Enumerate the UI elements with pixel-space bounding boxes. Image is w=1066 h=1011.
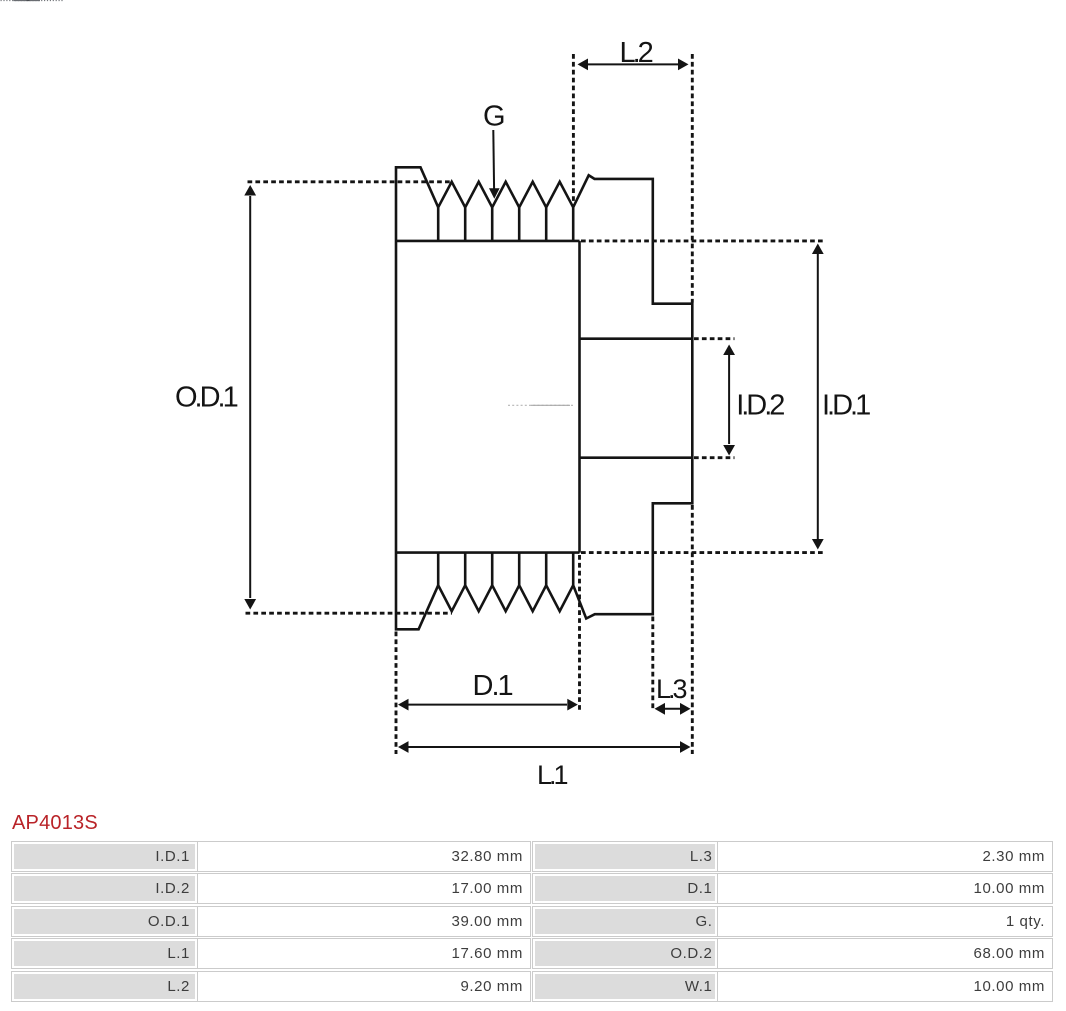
technical drawing of belt pulley	[0, 0, 1066, 800]
svg-text:I.D.2: I.D.2	[736, 389, 784, 421]
groove root slots bottom	[438, 553, 573, 586]
svg-text:L.3: L.3	[656, 674, 687, 704]
I.D.2 extension dashed bottom	[694, 456, 735, 459]
centerline axis	[508, 404, 573, 406]
O.D.1 extension dashed bottom	[246, 612, 453, 615]
svg-text:I.D.1: I.D.1	[822, 389, 870, 421]
dimension L.1 arrow line	[408, 746, 680, 748]
dimension L.2 arrow line	[587, 63, 679, 65]
dimension L.3 arrow line	[663, 708, 682, 710]
svg-text:L.1: L.1	[537, 760, 568, 790]
bore I.D.2 bottom line	[580, 456, 693, 459]
groove root slots top	[438, 207, 573, 241]
L.2 extension dashed right	[691, 54, 694, 303]
svg-text:L.2: L.2	[620, 37, 653, 69]
I.D.2 extension dashed top	[694, 337, 735, 340]
left spec table	[11, 841, 531, 1004]
svg-text:G: G	[483, 101, 506, 133]
D.1 extension dashed right	[578, 555, 581, 711]
pulley outline with poly-V grooves	[396, 167, 692, 629]
I.D.1 extension dashed bottom	[581, 551, 826, 554]
D.1 extension dashed left	[395, 632, 398, 755]
svg-text:O.D.1: O.D.1	[175, 382, 238, 414]
right spec table	[532, 841, 1054, 1004]
L.1 extension dashed right	[691, 505, 694, 754]
top-left cropped dotted strip	[0, 0, 70, 4]
dimension O.D.1 arrow line	[249, 196, 251, 598]
svg-text:D.1: D.1	[473, 670, 513, 702]
bore I.D.2 top line	[580, 337, 693, 340]
G leader arrow	[492, 130, 495, 190]
L.3 extension dashed left	[651, 617, 654, 712]
dimension I.D.2 arrow line	[728, 355, 730, 444]
pulley body right edge	[578, 241, 581, 553]
O.D.1 extension dashed top	[248, 180, 453, 183]
dimension I.D.1 arrow line	[817, 254, 819, 540]
part number heading	[12, 812, 98, 835]
pulley body bottom line	[396, 551, 580, 554]
pulley body top line	[396, 240, 580, 243]
I.D.1 extension dashed top	[581, 239, 826, 242]
dimension D.1 arrow line	[408, 704, 567, 706]
L.2 extension dashed left	[572, 54, 575, 206]
